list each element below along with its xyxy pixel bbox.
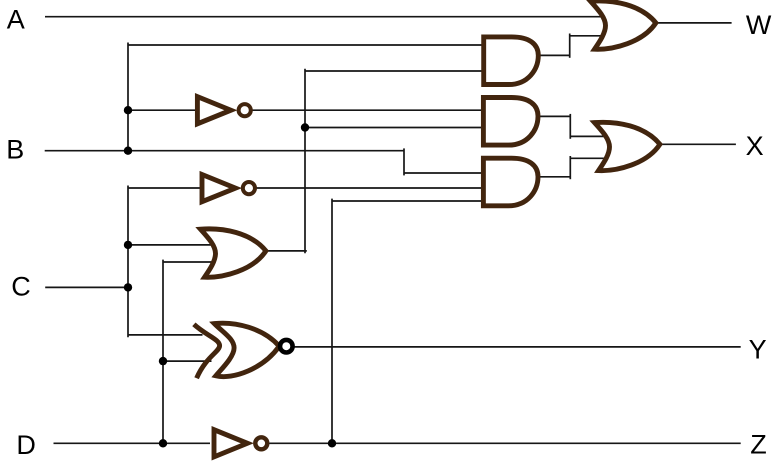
svg-text:X: X	[746, 131, 764, 161]
inverter U7 triangle	[202, 175, 236, 202]
wire D-bar to AND U4 input 3	[332, 200, 486, 202]
wire B bus to AND U2 input 1	[128, 44, 486, 46]
svg-text:B: B	[6, 135, 24, 165]
wire AND U2 output	[537, 54, 570, 56]
wire riser to AND U2 input 2	[305, 70, 486, 72]
svg-text:Z: Z	[750, 430, 767, 460]
and-gate U3	[483, 98, 538, 146]
and-gate U2	[484, 37, 539, 85]
inverter U7 bubble	[243, 182, 255, 194]
xnor-gate U9 leading curve	[194, 324, 220, 378]
junction dot B bus	[124, 147, 132, 155]
wire AND U3 output	[537, 115, 570, 117]
inverter U6 bubble	[239, 104, 251, 116]
wire AND U3 output riser	[569, 114, 571, 139]
wire A input to OR U1	[45, 16, 610, 18]
wire to OR U1 input 2	[570, 35, 612, 37]
or-gate U1 (output W)	[591, 1, 656, 49]
wire D input to NOT U10	[54, 442, 211, 444]
junction dot B to NOT U6	[124, 106, 132, 114]
wire to OR U5 input 1	[570, 135, 616, 137]
wire OR U5 output to X	[660, 143, 736, 145]
junction dot D input	[159, 439, 167, 447]
wire AND U4 output	[537, 176, 570, 178]
wire NOT U7 input	[128, 187, 203, 189]
wire NOT U6 output to AND U3 input 1	[252, 109, 486, 111]
svg-text:Y: Y	[749, 334, 767, 364]
svg-text:A: A	[7, 4, 25, 34]
wire C vertical bus x128	[127, 186, 129, 338]
wire D vertical bus x163	[162, 260, 164, 444]
and-gate U4	[483, 158, 538, 206]
wire D bus to XNOR U9 input 2	[163, 360, 212, 362]
wire B step to AND U4 input 1	[404, 172, 486, 174]
xnor-gate U9 bubble	[280, 340, 293, 353]
wire B vertical bus x128	[127, 43, 129, 151]
wire D bus to OR U8 input 2	[163, 261, 220, 263]
wire C bus to XNOR U9 input 1	[128, 334, 203, 336]
svg-text:D: D	[16, 430, 36, 460]
wire NOT U7 output to AND U4 input 2	[256, 187, 486, 189]
svg-text:C: C	[11, 272, 31, 302]
junction dot D-bar	[328, 439, 336, 447]
inverter U10 triangle	[214, 430, 247, 457]
wire OR U8 output riser x305	[304, 69, 306, 254]
or-gate U5 (output X)	[595, 122, 660, 170]
wire D-bar riser x332	[331, 199, 333, 444]
wire B step riser at x404	[403, 148, 405, 175]
inverter U10 bubble	[255, 437, 267, 449]
inverter U6 triangle	[197, 97, 231, 124]
or-gate U8	[201, 229, 266, 277]
svg-text:W: W	[746, 10, 772, 40]
wire AND U2 output riser	[569, 34, 571, 58]
wire AND U4 output riser	[569, 156, 571, 179]
junction dot C bus to OR U8	[124, 241, 132, 249]
wire XNOR U9 output to Y	[292, 346, 741, 348]
wire B input trunk	[45, 150, 404, 152]
xnor-gate U9 body	[214, 323, 279, 376]
wire C input	[45, 286, 128, 288]
junction dot OR U8 output to AND U3	[301, 123, 309, 131]
wire NOT U6 input	[128, 109, 198, 111]
junction dot D bus to XNOR U9	[159, 357, 167, 365]
wire NOT U10 output to Z	[270, 442, 741, 444]
wire to OR U5 input 2	[570, 157, 616, 159]
wire C bus to OR U8 input 1	[128, 244, 220, 246]
wire OR U1 output to W	[656, 22, 732, 24]
junction dot C bus	[124, 283, 132, 291]
wire riser to AND U3 input 2	[305, 127, 486, 129]
wire OR U8 output	[265, 250, 307, 252]
